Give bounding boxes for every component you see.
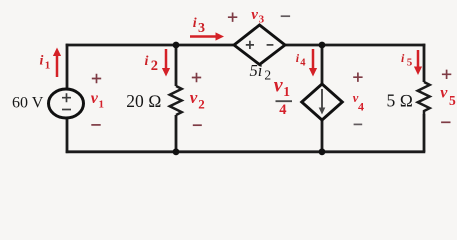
current i5 arrow [417, 50, 420, 69]
wire bottom horizontal [66, 150, 426, 153]
dependent current source U2 diamond [302, 84, 343, 120]
v2 minus sign [193, 124, 202, 126]
node junction dot bottom middle [319, 148, 326, 155]
v4 plus sign [353, 73, 362, 82]
v5 minus sign [441, 121, 450, 123]
wire 5-ohm branch upper lead [423, 44, 426, 82]
svg-text:5: 5 [407, 57, 413, 69]
node junction dot bottom 20-ohm [173, 148, 180, 155]
wire 20-ohm branch upper lead [175, 45, 178, 86]
current i4 arrow [312, 49, 315, 70]
svg-text:4: 4 [358, 100, 364, 114]
svg-text:i: i [193, 16, 197, 31]
svg-text:v: v [190, 88, 198, 107]
wire top-left horizontal [66, 44, 234, 47]
U2 inner arrow [321, 89, 323, 109]
U1 inner plus [246, 41, 254, 49]
svg-text:60 V: 60 V [12, 95, 44, 112]
svg-text:1: 1 [283, 84, 290, 99]
v3 plus sign [228, 13, 237, 22]
svg-text:i: i [40, 54, 44, 69]
svg-text:3: 3 [198, 21, 205, 36]
svg-text:2: 2 [151, 58, 158, 74]
wire middle branch lower lead [321, 120, 324, 152]
svg-text:4: 4 [300, 58, 306, 69]
dependent source U1 diamond 5i2 [234, 25, 285, 65]
wire 5-ohm branch lower lead [423, 114, 426, 152]
fraction bar [276, 100, 293, 102]
svg-text:v: v [440, 84, 448, 101]
svg-text:5i: 5i [250, 61, 263, 80]
voltage source plus sign [62, 93, 71, 102]
svg-text:5 Ω: 5 Ω [387, 91, 414, 111]
voltage source V1 60V circle [49, 89, 84, 118]
svg-text:v: v [251, 7, 258, 23]
v3 minus sign [281, 15, 290, 17]
node junction dot top middle [319, 42, 326, 49]
resistor R2 5-ohm zigzag [418, 82, 430, 114]
current i2 arrow [165, 49, 168, 70]
wire 20-ohm branch lower lead [175, 115, 178, 152]
svg-text:3: 3 [259, 13, 265, 25]
svg-text:2: 2 [198, 97, 205, 112]
svg-text:i: i [145, 54, 149, 69]
resistor R1 20-ohm zigzag [170, 86, 182, 115]
current i3 arrow [190, 35, 217, 38]
svg-text:5: 5 [449, 93, 456, 108]
svg-text:1: 1 [45, 60, 51, 72]
svg-text:1: 1 [99, 98, 105, 110]
voltage source minus sign [62, 109, 71, 111]
v1 plus sign [92, 74, 101, 83]
wire top-right horizontal [285, 44, 425, 47]
wire left vertical lower [66, 117, 69, 153]
svg-text:20 Ω: 20 Ω [126, 91, 161, 111]
node junction dot top 20-ohm [173, 42, 180, 49]
v4 minus sign [354, 123, 363, 125]
current i1 arrow [56, 54, 59, 77]
svg-text:4: 4 [279, 102, 286, 118]
svg-text:2: 2 [264, 68, 271, 83]
v5 plus sign [442, 70, 451, 79]
wire middle branch upper lead [321, 45, 324, 84]
U1 inner minus [267, 44, 274, 46]
wire left vertical upper [66, 44, 69, 90]
v1 minus sign [91, 124, 100, 126]
v2 plus sign [192, 73, 201, 82]
